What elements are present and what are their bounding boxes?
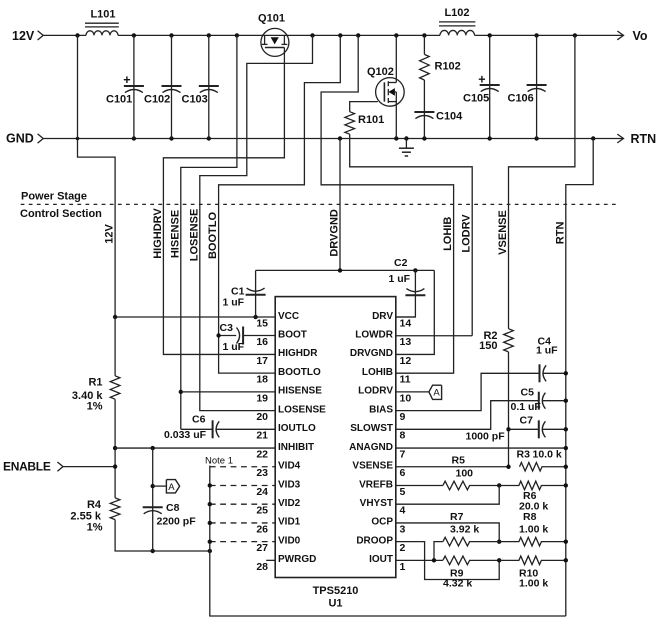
svg-text:BOOT: BOOT [278,330,307,341]
capacitor C8 [143,507,163,514]
connector GND input [38,134,44,143]
junction DRVGND rail tap [338,136,342,140]
svg-text:1 uF: 1 uF [223,341,245,353]
svg-text:VID3: VID3 [278,479,301,490]
wire OCP pin3 [396,523,499,542]
junction R102 top [422,33,426,37]
wire C4 to RTN [543,372,566,374]
svg-text:26: 26 [256,523,268,535]
net tag A (left) [166,480,179,493]
svg-text:1 uF: 1 uF [389,273,411,285]
resistor R8 [499,537,566,546]
junction C7-RTN [564,427,568,431]
wire HISENSE to C6 [181,428,213,430]
svg-text:VID2: VID2 [278,498,301,509]
ground symbol [399,139,414,157]
junction C7 tap [506,427,510,431]
wire R102-C104 [423,80,425,139]
svg-text:150: 150 [479,340,497,352]
svg-text:2: 2 [400,542,406,554]
svg-text:C8: C8 [166,502,180,514]
svg-text:+: + [478,73,485,87]
svg-text:DROOP: DROOP [356,535,393,546]
resistor R4 [110,498,120,520]
svg-text:DRV: DRV [372,311,393,322]
svg-text:R102: R102 [435,61,461,73]
junction 12V-VCC [113,315,117,319]
svg-text:14: 14 [400,317,412,329]
svg-text:TPS5210: TPS5210 [313,585,359,597]
svg-text:A: A [168,482,175,493]
svg-text:11: 11 [400,374,411,386]
svg-text:LOSENSE: LOSENSE [278,404,326,415]
junction RTN rail tap [591,136,595,140]
junction C8 bottom [151,549,155,553]
wire VID3 dashed [210,484,275,486]
svg-text:U1: U1 [328,598,342,610]
wire SLOWST pin8 to C5 [396,401,539,430]
connector RTN output [617,134,623,143]
wire C6 to pin21 [216,428,275,430]
svg-text:4: 4 [400,505,406,517]
svg-text:L102: L102 [444,7,469,19]
junction C104 bottom [422,136,426,140]
wire IOUT pin1 lead [396,559,443,561]
resistor R3 [520,462,566,471]
wire RTN feed [566,139,593,617]
svg-text:7: 7 [400,448,406,460]
wire C2 [396,270,416,317]
junction C3-BOOTLO [216,333,220,337]
resistor R2 [504,329,514,352]
junction R6-RTN [564,483,568,487]
junction C102 top [169,33,173,37]
junction BOOTLO tap [338,33,342,37]
wire C105 [489,35,491,138]
resistor R102 [420,54,430,80]
wire ENABLE [63,466,115,468]
wire C101 [133,35,135,138]
svg-text:19: 19 [256,392,268,404]
junction IOUT-R7-R9 [432,558,436,562]
svg-text:VID4: VID4 [278,461,301,472]
capacitor C6 [213,420,220,438]
svg-text:ENABLE: ENABLE [3,460,51,474]
section divider dashed line [21,203,618,205]
svg-text:+: + [123,73,130,87]
wire DRVGND pin12 [396,270,435,354]
svg-text:8: 8 [400,430,406,442]
wire VREFB pin5 lead [396,484,443,486]
svg-text:LODRV: LODRV [358,386,393,397]
svg-text:C2: C2 [394,257,408,269]
wire C7 row [509,428,539,430]
wire R2 to VSENSE pin6 [508,352,510,467]
svg-text:IOUTLO: IOUTLO [278,423,316,434]
svg-text:1: 1 [400,561,406,573]
capacitor C101 [123,73,144,93]
wire C1 [255,270,257,317]
junction 12V-L101 left [75,33,79,37]
svg-text:25: 25 [256,505,268,517]
wire VID4 dashed [210,466,275,468]
junction ANAGND-RTN [564,446,568,450]
junction C101 bottom [132,136,136,140]
junction C1-VCC [253,315,257,319]
IC U1 TPS5210 body [275,297,396,578]
svg-text:PWRGD: PWRGD [278,554,316,565]
svg-text:21: 21 [256,430,268,442]
svg-text:A: A [433,387,440,398]
wire DRVGND feed [339,139,341,271]
capacitor C103 [199,86,219,93]
svg-text:VID1: VID1 [278,517,301,528]
junction INHIBIT col [113,446,117,450]
svg-text:22: 22 [256,448,268,460]
capacitor C4 [540,364,547,382]
wire DRV pin14 [396,316,416,318]
svg-text:4.32 k: 4.32 k [443,578,472,590]
svg-text:C103: C103 [182,94,208,106]
junction LOHIB tap [356,33,360,37]
wire HISENSE pin19 [181,391,275,393]
svg-text:Q102: Q102 [367,66,394,78]
junction C106 bottom [534,136,538,140]
capacitor C2 [405,289,425,296]
wire R102 top lead [423,35,425,54]
svg-text:C6: C6 [192,414,206,426]
svg-text:R8: R8 [523,511,537,523]
junction C103 top [207,33,211,37]
svg-text:BOOTLO: BOOTLO [207,212,219,259]
junction VID col bottom [208,549,212,553]
junction C106 top [534,33,538,37]
wire LOHIB pin11 [396,372,454,374]
wire R1 to R4 [114,399,116,498]
junction VID2 [208,502,212,506]
svg-text:LOSENSE: LOSENSE [188,209,200,262]
wire VID2 dashed [210,503,275,505]
wire C106 [536,35,538,138]
svg-text:HIGHDR: HIGHDR [278,348,318,359]
wire GND rail [43,138,622,140]
svg-text:12V: 12V [104,224,116,244]
wire BOOTLO feed [219,35,341,373]
svg-text:C5: C5 [521,387,535,399]
junction C105 top [488,33,492,37]
svg-text:L101: L101 [90,9,115,21]
svg-text:R4: R4 [87,499,102,511]
wire HIGHDRV feed [163,56,284,354]
svg-text:C104: C104 [436,111,463,123]
resistor R7 [443,537,499,546]
junction C105 bottom [488,136,492,140]
wire LOWDR pin13 [396,335,472,337]
svg-text:10: 10 [400,392,412,404]
wire 12V rail left [43,34,86,36]
svg-text:HIGHDRV: HIGHDRV [152,208,164,259]
svg-text:LODRV: LODRV [461,214,473,253]
connector Vo output [617,31,623,40]
wire C103 [208,35,210,138]
junction HISENSE pin19 [179,390,183,394]
svg-text:R3: R3 [517,449,531,461]
svg-text:HISENSE: HISENSE [278,386,322,397]
svg-text:DRVGND: DRVGND [329,209,341,257]
svg-text:100: 100 [456,468,474,480]
wire VCC pin15 [115,316,275,318]
resistor R9 [443,556,499,565]
svg-text:INHIBIT: INHIBIT [278,442,314,453]
junction VSENSE col pin6 [506,465,510,469]
junction C102 bottom [169,136,173,140]
svg-text:0.033 uF: 0.033 uF [164,429,207,441]
resistor R1 [110,376,120,399]
junction C103 bottom [207,136,211,140]
wire PWRGD pin28 stub [266,559,275,561]
svg-text:VSENSE: VSENSE [497,210,509,255]
wire Vo rail [475,34,623,36]
wire BOOT pin16 via C3 [219,335,237,337]
svg-text:C3: C3 [220,322,234,334]
svg-text:12: 12 [400,355,412,367]
svg-text:LOHIB: LOHIB [442,217,454,251]
svg-text:1 uF: 1 uF [536,345,558,357]
svg-text:1000 pF: 1000 pF [466,430,506,442]
capacitor C106 [527,85,547,92]
junction C5-RTN [564,399,568,403]
svg-text:C102: C102 [144,94,170,106]
svg-text:R101: R101 [358,114,384,126]
svg-text:Vo: Vo [633,29,648,43]
wire R101 to LODRV [350,134,473,336]
junction R7-R8-OCP [497,539,501,543]
svg-text:0.1 uF: 0.1 uF [511,401,542,413]
capacitor C104 [414,112,434,119]
wire switch node rail [289,34,440,36]
svg-text:16: 16 [256,336,268,348]
svg-text:17: 17 [256,355,268,367]
svg-text:Note 1: Note 1 [205,456,233,467]
junction ground symbol [404,136,408,140]
svg-text:OCP: OCP [371,517,393,528]
svg-text:15: 15 [256,317,268,329]
capacitor C1 [246,288,266,295]
resistor R6 [499,481,566,490]
svg-text:VSENSE: VSENSE [352,461,393,472]
svg-text:27: 27 [256,542,268,554]
svg-text:R5: R5 [452,455,466,467]
wire C3 to pin16 [243,335,275,337]
wire VSENSE feed [509,35,575,328]
junction VID0 [208,539,212,543]
wire VSENSE pin6 [396,466,509,468]
wire C7 to RTN [542,428,566,430]
wire C5 to RTN [542,400,566,402]
svg-text:1 uF: 1 uF [223,297,245,309]
wire R4 bottom [115,520,210,551]
svg-text:R7: R7 [450,511,464,523]
net tag A (pin10) [396,385,442,399]
svg-text:Q101: Q101 [258,12,285,24]
wire DROOP pin2 [396,542,499,580]
svg-text:R1: R1 [88,376,102,388]
capacitor C105 [478,73,500,92]
svg-text:DRVGND: DRVGND [350,348,393,359]
svg-text:5: 5 [400,486,406,498]
wire ANAGND pin7 [396,447,566,449]
svg-text:ANAGND: ANAGND [349,442,393,453]
wire VHYST pin4 [396,485,499,504]
junction R5-R6-VHYST [497,483,501,487]
svg-text:1%: 1% [87,522,103,534]
junction R10-RTN [564,558,568,562]
junction C4-RTN [564,371,568,375]
junction R8-RTN [564,539,568,543]
junction DRVGND-horiz [338,268,342,272]
wire C8 column [152,448,154,551]
junction VID3 [208,483,212,487]
svg-text:3: 3 [400,523,406,535]
svg-text:C7: C7 [520,415,534,427]
svg-text:6: 6 [400,467,406,479]
svg-text:Power Stage: Power Stage [21,190,87,202]
svg-text:24: 24 [256,486,268,498]
svg-text:1.00 k: 1.00 k [519,578,548,590]
wire BIAS pin9 to C4 [396,373,540,410]
transistor Q102 [376,78,405,107]
svg-text:12V: 12V [12,29,35,43]
svg-text:VID0: VID0 [278,535,301,546]
svg-text:3.92 k: 3.92 k [450,524,479,536]
svg-text:LOWDR: LOWDR [355,330,394,341]
svg-text:VREFB: VREFB [359,479,393,490]
junction Q102 source gnd [394,136,398,140]
capacitor C5 [539,392,546,410]
svg-text:10.0 k: 10.0 k [533,449,562,461]
junction HISENSE tap [235,33,239,37]
wire R7 left [434,542,443,561]
transistor Q101 [261,28,289,56]
wire A tag stub [153,485,167,487]
svg-text:2200 pF: 2200 pF [157,516,197,528]
junction C2 top [413,268,417,272]
wire 12V col to R1 [114,317,116,376]
svg-text:RTN: RTN [631,132,657,146]
svg-text:13: 13 [400,336,412,348]
wire LOHIB feed [321,35,454,373]
svg-text:BIAS: BIAS [369,404,393,415]
wire Q102 source [395,92,397,139]
svg-text:1%: 1% [87,401,103,413]
svg-text:BOOTLO: BOOTLO [278,367,321,378]
connector 12V input [38,31,44,40]
junction 12V feed crossing [76,137,80,141]
svg-text:C101: C101 [106,94,132,106]
connector ENABLE input [57,462,63,471]
wire 12V rail to Q101 [118,34,261,36]
resistor R101 [345,112,355,135]
junction R9-R10-DROOP [497,558,501,562]
capacitor C7 [539,420,546,438]
svg-text:HISENSE: HISENSE [169,210,181,258]
junction A tag tap [151,484,155,488]
junction L101-C101 [132,33,136,37]
svg-text:28: 28 [256,561,268,573]
svg-text:IOUT: IOUT [369,554,393,565]
wire Note1 stub [209,462,211,467]
inductor L101 [85,23,119,35]
junction C8 col top [151,446,155,450]
svg-text:VCC: VCC [278,311,299,322]
svg-text:C106: C106 [508,93,534,105]
wire LOSENSE feed [200,35,313,410]
junction switch loop tap [310,33,314,37]
capacitor C102 [162,86,182,93]
svg-text:9: 9 [400,411,406,423]
wire VID1 dashed [210,522,275,524]
wire VID common [210,467,566,616]
svg-text:LOHIB: LOHIB [362,367,393,378]
junction VID1 [208,521,212,525]
svg-text:VHYST: VHYST [360,498,393,509]
wire Q102 drain [395,35,397,82]
wire Q102 gate [350,102,378,112]
svg-text:SLOWST: SLOWST [350,423,393,434]
svg-text:RTN: RTN [554,222,566,245]
wire VID0 dashed [210,541,275,543]
junction R3-RTN [564,465,568,469]
svg-text:23: 23 [256,467,268,479]
wire HISENSE feed [181,35,237,429]
resistor R5 [443,481,499,490]
wire C102 [171,35,173,138]
svg-text:GND: GND [6,132,34,146]
wire INHIBIT pin22 [115,447,275,449]
junction VSENSE tap [573,33,577,37]
svg-text:Control Section: Control Section [20,208,102,220]
wire DRVGND top horiz [256,269,435,271]
inductor L102 [439,22,475,36]
svg-text:1.00 k: 1.00 k [519,524,548,536]
wire 12V feed [78,35,116,317]
resistor R10 [499,556,566,565]
capacitor C3 [237,327,244,345]
junction ENABLE col [113,464,117,468]
svg-text:20: 20 [256,411,268,423]
svg-text:C105: C105 [463,93,489,105]
svg-text:18: 18 [256,374,268,386]
junction Q102 drain [394,33,398,37]
